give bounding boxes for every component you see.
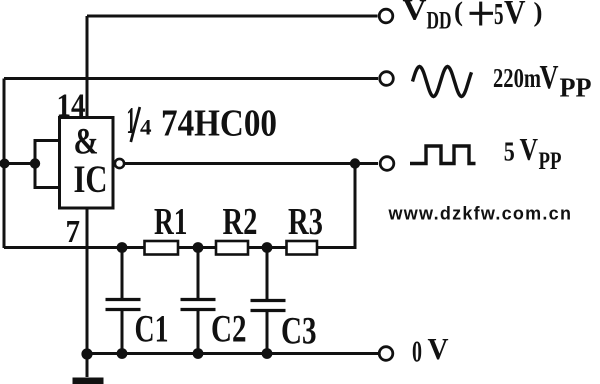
svg-text:0: 0 — [412, 334, 422, 369]
terminal VDD — [379, 9, 393, 23]
sine wave symbol — [413, 67, 472, 97]
wire: input feed stub — [4, 162, 35, 165]
node: R2-R3 junction — [262, 242, 273, 253]
svg-text:4: 4 — [140, 115, 152, 140]
label 1/4 74HC00: fraction slash — [131, 107, 140, 142]
svg-text:www.dzkfw.com.cn: www.dzkfw.com.cn — [388, 204, 573, 224]
svg-text:IC: IC — [74, 158, 108, 201]
svg-text:5: 5 — [494, 0, 504, 31]
node: C3 bottom junction — [262, 348, 273, 359]
wire: square node down to R3 — [317, 164, 355, 248]
capacitor C1 — [106, 248, 141, 355]
svg-text:V: V — [520, 131, 539, 167]
svg-text:&: & — [74, 122, 99, 163]
svg-text:PP: PP — [560, 73, 592, 103]
node: R1 left junction — [117, 242, 128, 253]
svg-text:R3: R3 — [288, 201, 323, 243]
square wave symbol — [410, 146, 476, 164]
svg-text:C2: C2 — [211, 308, 247, 351]
wire: bottom 0V rail — [87, 352, 378, 355]
svg-text:): ) — [534, 0, 543, 27]
node: input tie junction — [30, 158, 40, 168]
wire: R ladder rail (pin feedback to R1) — [4, 246, 355, 249]
svg-text:14: 14 — [57, 88, 86, 124]
svg-text:R2: R2 — [223, 201, 258, 243]
ground — [73, 354, 104, 384]
svg-text:V: V — [403, 0, 427, 27]
resistor R3 — [287, 241, 318, 255]
NAND gate output bubble — [115, 159, 124, 168]
capacitor C2 — [181, 248, 216, 355]
svg-text:220m: 220m — [493, 63, 541, 93]
terminal 0V — [379, 347, 393, 361]
svg-text:7: 7 — [66, 213, 81, 249]
wire: left feedback rail — [3, 79, 6, 249]
node: left rail junction — [0, 159, 10, 169]
svg-text:R1: R1 — [154, 201, 188, 243]
wire: VDD top rail — [87, 15, 378, 18]
svg-text:C3: C3 — [281, 310, 317, 353]
svg-text:(: ( — [454, 0, 463, 27]
svg-text:V: V — [504, 0, 526, 31]
svg-text:5: 5 — [504, 137, 515, 167]
label (+5V): plus sign — [470, 12, 494, 15]
node: square output junction — [350, 158, 360, 168]
wire: input tie bracket — [35, 141, 59, 188]
NAND gate U1 box (1/4 74HC00) — [60, 118, 114, 209]
node: R1-R2 junction — [193, 242, 204, 253]
wire: 220mV output rail — [4, 77, 378, 80]
wire: pin 14 vertical to VDD rail — [86, 16, 89, 118]
capacitor C3 — [251, 248, 286, 355]
node: C1 bottom junction — [117, 348, 128, 359]
svg-text:V: V — [540, 59, 559, 96]
wire: gate output to square terminal — [124, 162, 378, 165]
svg-text:C1: C1 — [135, 308, 169, 351]
svg-text:V: V — [428, 331, 450, 366]
terminal square output — [380, 157, 394, 171]
resistor R1 — [145, 241, 179, 255]
svg-text:DD: DD — [427, 8, 452, 35]
wire: pin 7 vertical — [86, 208, 89, 354]
node: ground junction — [81, 348, 92, 359]
svg-text:1: 1 — [127, 100, 136, 142]
svg-text:PP: PP — [539, 148, 562, 175]
terminal sine output — [380, 72, 394, 86]
node: C2 bottom junction — [193, 348, 204, 359]
resistor R2 — [216, 241, 248, 255]
svg-text:74HC00: 74HC00 — [161, 103, 277, 145]
